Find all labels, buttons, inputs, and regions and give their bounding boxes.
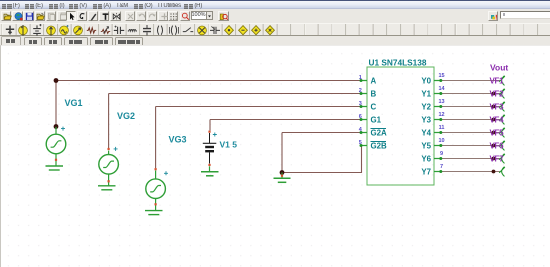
svg-text:Y5: Y5 <box>421 142 431 151</box>
chip right pin stubs <box>434 81 441 172</box>
VG2 plus <box>114 147 118 151</box>
output wires Y0-Y7 <box>441 81 500 172</box>
svg-text:Y3: Y3 <box>421 116 431 125</box>
VG1 plus <box>61 127 65 131</box>
VG3 terminal ticks <box>155 168 157 170</box>
svg-text:14: 14 <box>438 86 445 92</box>
svg-text:6: 6 <box>359 114 362 120</box>
battery terminal ticks <box>208 131 210 133</box>
svg-text:G2A: G2A <box>371 129 388 138</box>
svg-text:VF7: VF7 <box>490 155 505 164</box>
junction node G2 ground <box>280 170 285 175</box>
pin numbers right <box>438 73 445 170</box>
svg-text:VF1: VF1 <box>490 77 505 86</box>
wire VG1 to pin A <box>56 81 361 127</box>
svg-text:2: 2 <box>359 88 362 94</box>
svg-text:11: 11 <box>439 125 445 131</box>
VG2 terminal ticks <box>108 148 110 150</box>
svg-text:VF5: VF5 <box>490 129 505 138</box>
svg-text:G1: G1 <box>371 116 382 125</box>
svg-text:Vout: Vout <box>490 63 508 73</box>
svg-text:Y4: Y4 <box>421 129 431 138</box>
svg-text:VG2: VG2 <box>117 111 135 121</box>
voltage generator VG3 <box>145 171 165 215</box>
svg-text:U1 SN74LS138: U1 SN74LS138 <box>369 58 428 67</box>
svg-text:V1 5: V1 5 <box>220 140 238 150</box>
svg-text:VG3: VG3 <box>169 135 187 145</box>
svg-text:VF2: VF2 <box>490 90 505 99</box>
svg-text:Y0: Y0 <box>421 77 431 86</box>
svg-text:Y6: Y6 <box>421 155 431 164</box>
svg-text:VF6: VF6 <box>490 142 505 151</box>
svg-text:VF3: VF3 <box>490 103 505 112</box>
svg-text:13: 13 <box>438 99 444 105</box>
overlines for G2A G2B <box>371 129 387 142</box>
battery plus <box>213 133 217 137</box>
svg-text:3: 3 <box>359 101 362 107</box>
voltage generator VG2 <box>98 151 118 190</box>
probe junction dots <box>492 92 496 174</box>
main toolbar <box>0 0 550 1</box>
pin numbers left <box>359 75 363 146</box>
chip pin names <box>371 77 432 177</box>
wire G2A to ground <box>282 133 361 173</box>
svg-text:12: 12 <box>438 112 444 118</box>
component toolbar <box>0 23 550 36</box>
svg-text:9: 9 <box>440 151 443 157</box>
svg-text:VG1: VG1 <box>65 98 83 108</box>
battery V1 <box>203 133 217 164</box>
svg-text:Y1: Y1 <box>421 90 431 99</box>
voltage generator VG1 <box>46 127 66 170</box>
svg-text:C: C <box>371 103 377 112</box>
chip pin dots <box>360 79 443 173</box>
probes VF1-VF8 <box>499 76 505 177</box>
chip left pin stubs <box>361 81 368 146</box>
svg-text:VF4: VF4 <box>490 116 505 125</box>
VG1 terminal tick <box>55 159 57 161</box>
svg-text:1: 1 <box>359 75 362 81</box>
svg-text:A: A <box>371 77 377 86</box>
tabs <box>0 36 550 45</box>
svg-text:15: 15 <box>438 73 444 79</box>
probe labels <box>490 77 505 164</box>
wire VG2 to pin B <box>109 94 361 149</box>
junction node A <box>54 78 59 83</box>
wire V1 to pin G1 <box>210 120 361 131</box>
svg-text:10: 10 <box>438 138 444 144</box>
svg-text:Y2: Y2 <box>421 103 431 112</box>
junction node VG1 top <box>54 124 59 129</box>
svg-text:Y7: Y7 <box>421 168 431 177</box>
svg-text:B: B <box>371 90 377 99</box>
op-amp U1 chip body <box>367 67 434 185</box>
ground for G2 <box>274 173 291 183</box>
VG3 plus <box>164 171 168 175</box>
battery ground <box>201 166 219 176</box>
svg-text:G2B: G2B <box>371 142 388 151</box>
wire VG3 to pin C <box>156 107 361 169</box>
menu bar <box>0 0 550 9</box>
wire G2B to ground <box>282 146 362 173</box>
svg-text:7: 7 <box>440 164 443 170</box>
svg-text:5: 5 <box>359 140 362 146</box>
